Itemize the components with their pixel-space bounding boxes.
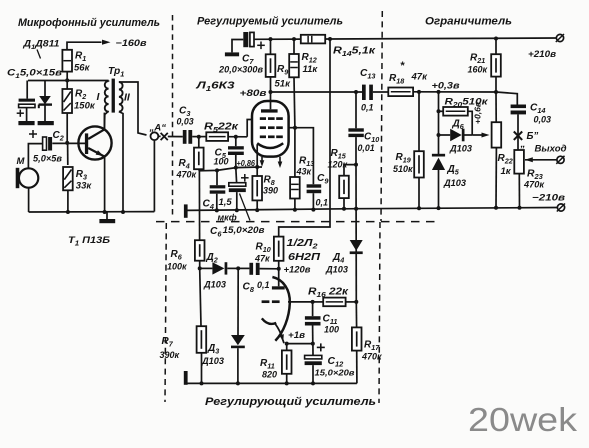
resistor R9 (266, 54, 276, 77)
label C7 (242, 54, 254, 67)
label D2 (203, 252, 226, 290)
junction R11/rail (285, 381, 289, 385)
junction anode node (269, 90, 273, 94)
wire node to C14 (496, 92, 517, 105)
wire R18 to limiter node (413, 91, 496, 93)
svg-text:6Н2П: 6Н2П (288, 252, 321, 263)
wire C3 to R5 (192, 136, 206, 138)
wire screen node to C9 (295, 128, 313, 185)
resistor R15 (339, 176, 349, 198)
label D4 (325, 252, 348, 275)
label C10 (358, 132, 380, 154)
svg-text:47к: 47к (411, 72, 429, 83)
wire microphone to rail (28, 188, 30, 212)
wire C12 top lead (312, 344, 314, 356)
junction R5/C5 (234, 135, 238, 139)
wire C8 left (238, 267, 249, 269)
label +0,6в rotated (473, 102, 483, 124)
wire C9 to rail (312, 193, 314, 209)
wire C8 right (260, 268, 279, 270)
capacitor C4 (210, 185, 226, 194)
resistor R21 (491, 54, 501, 76)
diode D3 (231, 335, 245, 348)
junction R3/rail (66, 210, 70, 214)
diode D4 (350, 240, 363, 254)
svg-text:0,1: 0,1 (361, 103, 374, 113)
svg-text:R145,1к: R145,1к (333, 46, 376, 59)
tube L1 grids (260, 119, 283, 137)
transistor T1 (78, 126, 111, 159)
label Выход (535, 144, 567, 155)
wire rail to Tp1 primary (67, 81, 108, 82)
junction D3/rail (236, 381, 240, 385)
wire rail to R12 (293, 39, 295, 54)
resistor R22 (492, 122, 502, 147)
wire Tp1 secondary top to node A (119, 82, 147, 135)
arrow D6 output (482, 133, 490, 138)
wire Tp1 primary to collector (104, 111, 108, 130)
arrow -160V (102, 40, 111, 45)
capacitor C3 (183, 130, 192, 144)
wire R8 to rail (256, 200, 258, 210)
junction R20 branch (437, 109, 441, 113)
label R17 (361, 340, 382, 362)
wire C5 bottom lead (235, 155, 237, 168)
label L2 (287, 238, 321, 263)
svg-text:+0,3в: +0,3в (432, 81, 461, 91)
junction main/rail (354, 207, 358, 211)
junction bias/C4 (215, 168, 219, 172)
capacitor C6 (229, 174, 249, 192)
label R13 (296, 156, 315, 177)
junction R10/anode (277, 267, 281, 271)
label C6 (210, 225, 265, 239)
resistor R7 (197, 326, 207, 353)
label R4 (176, 158, 197, 180)
wire stabilized rail (28, 80, 67, 82)
wire L1 control grid (247, 120, 252, 137)
capacitor C10 (348, 128, 363, 137)
svg-text:390к: 390к (160, 350, 180, 360)
wire D2 node down (200, 268, 201, 326)
svg-text:43к: 43к (296, 167, 312, 177)
svg-text:+80в: +80в (240, 88, 268, 98)
label C11 (323, 314, 340, 335)
dashed divider mic/reg amp (172, 15, 174, 218)
wire R20 to D6 node (468, 111, 472, 135)
resistor R19 (414, 151, 424, 177)
svg-text:0,1: 0,1 (257, 280, 270, 290)
wire anode wire (271, 91, 363, 93)
wire C6 to rail (236, 192, 238, 210)
junction anode/C10 (354, 90, 358, 94)
label winding II (124, 92, 131, 104)
capacitor C5 (228, 146, 244, 155)
terminal output (556, 156, 564, 164)
wire C7 ground lead (232, 40, 243, 53)
wire D3 top lead (237, 268, 239, 335)
wire to D2 (200, 267, 213, 269)
junction base node (65, 141, 69, 145)
tube L1 anode (261, 92, 278, 113)
junction C11/C12 (311, 342, 315, 346)
wire L2 grid lead (288, 301, 313, 303)
svg-text:100: 100 (214, 157, 229, 167)
wire C6 top lead (235, 168, 238, 183)
label R23 (523, 169, 545, 190)
wire C1 top lead (26, 81, 28, 99)
junction bias/cathode (255, 165, 259, 169)
label R16 (308, 287, 349, 300)
wire rail to R2 (66, 81, 68, 90)
junction R15/rail (342, 207, 346, 211)
svg-text:Д103: Д103 (203, 280, 226, 290)
junction C9/rail (311, 208, 315, 212)
label -210в (532, 192, 565, 203)
svg-text:51к: 51к (275, 79, 292, 90)
wire L1 cathode lead (256, 145, 258, 168)
wire regamp rail (186, 382, 357, 384)
wire rail to R21 (495, 39, 497, 55)
terminal -210V (557, 204, 565, 212)
junction rail/R21 (494, 37, 498, 41)
label M (17, 156, 26, 167)
wire R15 to rail (343, 198, 345, 209)
wire R1 to junction (66, 72, 68, 81)
wire R17 to rail (356, 351, 358, 384)
svg-text:„А“: „А“ (149, 123, 167, 134)
label R19 (393, 152, 413, 174)
resistor R16 (323, 298, 345, 307)
tube L2 grid (262, 300, 280, 303)
wire R22 top lead (495, 92, 497, 122)
junction R1/R2/rail (65, 78, 69, 82)
junction R21/R22 node (494, 90, 498, 94)
svg-text:+0,6в: +0,6в (473, 102, 483, 124)
wire mic ground rail (29, 211, 155, 213)
transformer Tp1 core (112, 79, 115, 113)
label Tp1 (108, 66, 124, 79)
wire D6 output (465, 134, 484, 136)
resistor R6 (195, 240, 205, 261)
svg-text:470к: 470к (523, 180, 545, 190)
junction R13/rail (293, 208, 297, 212)
label C1 value (7, 68, 62, 81)
label R11 (260, 358, 277, 380)
ground common rail (184, 204, 188, 217)
label node B (520, 131, 539, 150)
svg-text:0,1: 0,1 (316, 198, 329, 208)
section title: Ограничитель (425, 16, 512, 28)
svg-text:М: М (17, 156, 26, 167)
wire node A down (153, 140, 155, 212)
wire cathode bias (199, 167, 262, 171)
junction grid/C11 (311, 300, 315, 304)
svg-text:510к: 510к (393, 164, 413, 174)
wire R19 top lead (418, 92, 420, 151)
wire R19 to rail (418, 178, 420, 209)
label R21 (468, 53, 488, 75)
wire R17 top lead (355, 302, 357, 328)
label R6 (167, 249, 187, 272)
dashed border regulating amp right (379, 222, 380, 403)
wire B+ branch to R10 (279, 39, 330, 237)
junction bias/C5C6 (234, 166, 238, 170)
svg-text:390: 390 (263, 186, 278, 196)
wire C5 top lead (235, 137, 237, 147)
junction R19/rail (417, 206, 421, 210)
svg-text:Выход: Выход (535, 144, 567, 155)
label +0,3в (432, 81, 461, 91)
label +1в (288, 330, 306, 340)
wire R23 to rail (518, 174, 520, 208)
junction C6/rail (235, 208, 239, 212)
label T1 (68, 235, 110, 248)
wire C11 bottom lead (312, 326, 314, 344)
dashed border regulating amp left (165, 223, 166, 402)
wire C2 to base node (52, 142, 85, 144)
capacitor C9 (307, 184, 322, 193)
svg-text:+210в: +210в (528, 48, 556, 59)
terminal +210V (556, 34, 564, 42)
junction rail/R12 (292, 37, 296, 41)
wire C10 top lead (355, 92, 357, 128)
junction screen node (293, 126, 297, 130)
svg-text:470к: 470к (361, 352, 382, 362)
junction D5 tap (437, 90, 441, 94)
label C12 (315, 356, 355, 378)
wire R6 to D2 node (199, 261, 201, 269)
svg-text:*: * (400, 60, 405, 72)
junction C3/R4 (197, 135, 201, 139)
wire base node to R3 (67, 143, 69, 165)
label +210в (528, 48, 556, 59)
wire R11 top lead (286, 344, 288, 351)
label R20 (445, 97, 489, 110)
tube L2 anode (272, 269, 285, 290)
junction secondary/rail (121, 210, 125, 214)
junction C10/R15 (354, 163, 358, 167)
wire C11 top lead (312, 302, 314, 316)
label D3 (201, 343, 224, 366)
wire R15 branch (344, 165, 356, 176)
wire cathode to R8 (256, 167, 258, 176)
svg-text:−160в: −160в (116, 38, 148, 48)
transformer Tp1 primary (105, 81, 109, 112)
svg-text:−210в: −210в (532, 192, 565, 203)
svg-text:0,01: 0,01 (358, 143, 375, 153)
label C5 (214, 148, 229, 167)
junction D6 branch (437, 133, 441, 137)
wire -160V feed (67, 42, 102, 50)
wire screen node to R13 (294, 128, 296, 177)
wire R7 to rail (201, 353, 203, 384)
wire R22 to rail (495, 148, 497, 208)
section title: Микрофонный усилитель (18, 17, 160, 29)
leader line D1 label (37, 50, 41, 59)
wire R9 to anode node (270, 77, 272, 92)
resistor R12 (289, 54, 299, 77)
label C2 (33, 130, 64, 164)
wire D5 line (438, 92, 440, 155)
label C7 value (218, 65, 264, 75)
svg-text:Регулируемый усилитель: Регулируемый усилитель (197, 16, 343, 28)
resistor R4 (194, 148, 204, 170)
label R14 (333, 46, 376, 59)
wire R11 to rail (286, 374, 288, 384)
transformer Tp1 secondary (119, 82, 123, 112)
wire cathode node to C12 (287, 343, 313, 345)
svg-text:33к: 33к (76, 181, 93, 192)
label R9 (275, 64, 292, 90)
svg-text:Д103: Д103 (449, 144, 472, 154)
resistor R11 (282, 350, 292, 373)
label R8 (263, 175, 278, 196)
svg-text:+120в: +120в (284, 265, 312, 275)
wire D1 top lead (44, 81, 46, 97)
capacitor C2 (29, 130, 52, 151)
svg-text:Ограничитель: Ограничитель (425, 16, 512, 28)
label R12 (302, 52, 319, 75)
wire X to C3 (168, 136, 183, 138)
zener diode D1 (39, 96, 52, 108)
arrow output (525, 157, 533, 162)
capacitor C8 (249, 263, 259, 275)
junction cathode/R11 (285, 342, 289, 346)
label R7 (160, 336, 180, 360)
diode D5 (432, 154, 445, 170)
junction R6/D2 (198, 266, 202, 270)
svg-text:160к: 160к (468, 65, 488, 75)
wire output (525, 159, 557, 161)
resistor R13 (290, 177, 300, 199)
svg-text:R522к: R522к (204, 122, 239, 135)
svg-text:Микрофонный усилитель: Микрофонный усилитель (18, 17, 160, 29)
label D5 (443, 164, 466, 188)
resistor R1 (62, 50, 72, 72)
label node A (149, 123, 167, 134)
svg-text:Д103: Д103 (325, 265, 348, 275)
section title: Регулирующий усилитель (205, 396, 376, 408)
capacitor C1 (17, 99, 35, 117)
label C8 (243, 280, 270, 294)
ground regamp rail (184, 371, 188, 385)
svg-text:20,0×300в: 20,0×300в (218, 65, 264, 75)
junction rail/B+ branch (328, 37, 332, 41)
ground D1 (38, 121, 54, 125)
ground mic rail (99, 212, 115, 223)
wire C4 to rail (216, 194, 218, 211)
label C9 (316, 173, 330, 208)
wire L1 screen grid lead (289, 127, 295, 129)
dashed divider reg amp/limiter (381, 11, 382, 221)
svg-text:„: „ (520, 139, 526, 150)
wire R5 to grid (228, 136, 247, 138)
svg-text:1,5: 1,5 (219, 197, 233, 208)
label +0,86 (237, 159, 256, 168)
junction C4/rail (215, 208, 219, 212)
svg-text:R16 22к: R16 22к (308, 287, 349, 300)
junction C12/rail (311, 381, 315, 385)
svg-text:820: 820 (262, 370, 277, 380)
resistor R2 (62, 89, 72, 113)
junction R23/rail (518, 206, 522, 210)
label D6 (449, 119, 472, 154)
svg-text:мкф: мкф (218, 213, 237, 223)
junction R16/R17 (354, 300, 358, 304)
resistor R23 (514, 150, 524, 174)
wire D3 to rail (237, 348, 239, 383)
wire T1 collector (103, 113, 105, 130)
watermark 20wek (468, 401, 578, 438)
svg-text:Д103: Д103 (443, 178, 466, 188)
wire rail to R9 (270, 39, 272, 54)
dashed separator horizontal (156, 221, 437, 223)
ground C7 (225, 52, 239, 56)
wire C12 to rail (312, 365, 314, 383)
svg-text:470к: 470к (176, 170, 197, 180)
resistor R18 (388, 88, 413, 97)
capacitor C13 (362, 85, 373, 100)
tube L1 envelope (252, 101, 289, 157)
svg-text:+0,86: +0,86 (237, 159, 256, 168)
svg-text:0,03: 0,03 (177, 117, 194, 127)
svg-text:15,0×20в: 15,0×20в (315, 368, 355, 378)
label C14 (530, 103, 551, 125)
svg-text:56к: 56к (74, 63, 91, 74)
diode D6 (450, 129, 464, 142)
capacitor C7 (243, 32, 264, 49)
svg-text:5,0×5в: 5,0×5в (33, 154, 63, 164)
label R5 (204, 122, 239, 135)
wire R16 right (346, 301, 357, 303)
label R15 (328, 148, 348, 170)
svg-text:+1в: +1в (288, 330, 306, 340)
label R1 (74, 51, 91, 74)
svg-text:Т1 П13Б: Т1 П13Б (68, 235, 110, 248)
label +120в (284, 265, 312, 275)
label R3 (76, 169, 93, 192)
label R2 (74, 89, 96, 112)
resistor R5 (206, 132, 228, 141)
svg-text:11к: 11к (303, 64, 319, 75)
junction R8/rail (255, 208, 259, 212)
connector X mark at A (161, 133, 168, 140)
capacitor C11 (305, 316, 321, 325)
wire T1 emitter to rail (104, 157, 106, 212)
wire R2 to base node (66, 113, 68, 143)
microphone M (16, 168, 39, 188)
tube L2 cathode (262, 318, 276, 324)
resistor R3 (63, 167, 73, 190)
tube L1 heater right (278, 157, 283, 168)
svg-text:100: 100 (324, 325, 339, 335)
wire C10 bottom lead (355, 137, 357, 165)
svg-text:0,03: 0,03 (534, 115, 552, 125)
diode D2 (212, 262, 227, 274)
label L1 (195, 81, 235, 94)
wire C14 to B point (517, 114, 519, 150)
svg-text:150к: 150к (74, 101, 96, 112)
leader line C6 label (240, 194, 251, 221)
label winding I (97, 91, 101, 103)
svg-text:Л16К3: Л16К3 (195, 81, 235, 94)
junction rail/R9 (269, 37, 273, 41)
svg-text:Б”: Б” (527, 131, 539, 142)
label C13 (360, 68, 376, 113)
resistor R10 (274, 237, 284, 261)
label C4 (203, 197, 237, 223)
